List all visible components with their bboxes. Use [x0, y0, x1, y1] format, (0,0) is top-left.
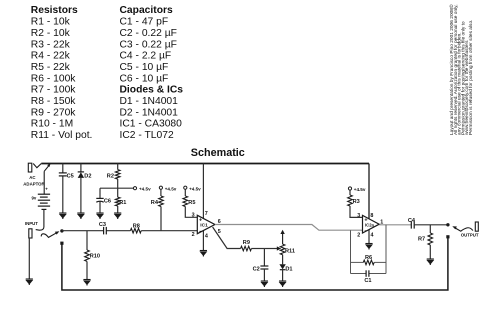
wire input jack sleeve to ground	[28, 238, 30, 279]
wire feedback right vertical	[385, 225, 387, 274]
svg-text:IC1: IC1	[200, 223, 208, 229]
capacitor C6	[96, 198, 103, 202]
svg-text:C3 - 0.22 µF: C3 - 0.22 µF	[120, 39, 177, 50]
terminal +4.5v node 1	[133, 187, 136, 190]
wire R6 branch	[351, 262, 387, 273]
ground IC2 pin 4	[365, 244, 372, 250]
ground C6	[96, 213, 103, 219]
svg-text:2: 2	[357, 232, 360, 238]
svg-text:R1: R1	[119, 200, 126, 206]
wire C2 to ground	[263, 269, 265, 281]
svg-text:C6 - 10 µF: C6 - 10 µF	[120, 73, 169, 84]
svg-text:R11 - Vol pot.: R11 - Vol pot.	[31, 130, 93, 141]
output jack J2	[475, 222, 478, 231]
wire junction to C2	[263, 249, 265, 267]
wire D1 to ground	[282, 270, 284, 281]
wire input signal line	[62, 230, 197, 232]
svg-text:R4 - 22k: R4 - 22k	[31, 51, 71, 62]
wire +9v top rail	[41, 163, 369, 165]
resistor R5	[183, 196, 188, 207]
battery B1 9v	[38, 194, 50, 209]
svg-text:−: −	[199, 229, 202, 235]
resistor R9	[241, 246, 252, 251]
resistor R3	[348, 195, 353, 206]
node input (junction dot)	[60, 229, 63, 232]
svg-text:C6: C6	[104, 199, 111, 205]
wire IC1 pin 4 to ground	[202, 231, 204, 251]
svg-text:Permission is refused for post: Permission is refused for posting from o…	[468, 20, 474, 135]
svg-text:C1: C1	[364, 278, 371, 284]
svg-text:+4.5v: +4.5v	[354, 187, 366, 192]
wire R5 top	[184, 189, 186, 196]
svg-text:R10: R10	[90, 254, 100, 260]
svg-text:C4 - 2.2 µF: C4 - 2.2 µF	[120, 51, 172, 62]
wire IC2 pin 8 from rail	[368, 164, 370, 219]
svg-text:4: 4	[205, 233, 208, 239]
op-amp IC1 CA3080	[192, 211, 221, 240]
ground R10	[83, 280, 90, 286]
wire IC1 pin5 to R9	[213, 227, 241, 249]
svg-text:C5: C5	[67, 173, 74, 179]
svg-text:AC: AC	[29, 175, 36, 180]
svg-text:7: 7	[205, 211, 208, 217]
ground R1	[114, 213, 121, 219]
resistor R8	[130, 228, 141, 233]
potentiometer R11	[280, 230, 295, 255]
terminal +4.5v node 3	[184, 186, 187, 189]
svg-text:R7 - 100k: R7 - 100k	[31, 85, 76, 96]
ground R7	[427, 259, 434, 265]
op-amp IC2 TL072	[357, 213, 383, 239]
svg-text:2: 2	[192, 232, 195, 238]
svg-text:R3 - 22k: R3 - 22k	[31, 39, 71, 50]
svg-text:R3: R3	[353, 199, 360, 205]
svg-text:R8: R8	[133, 223, 140, 229]
svg-text:R6 - 100k: R6 - 100k	[31, 73, 76, 84]
svg-text:IC2 - TL072: IC2 - TL072	[120, 130, 174, 141]
svg-text:+: +	[45, 187, 48, 192]
svg-text:IC2a: IC2a	[365, 222, 375, 227]
svg-text:C3: C3	[99, 222, 106, 228]
node +4.5v bias (R2/R1/C6)	[100, 188, 133, 213]
wire R3 top	[349, 190, 351, 195]
resistor R2	[115, 170, 120, 180]
ground input jack	[26, 279, 33, 285]
svg-text:R11: R11	[285, 249, 295, 255]
svg-text:3: 3	[357, 213, 360, 219]
diode D2	[78, 172, 84, 178]
wire battery negative to input jack ring	[36, 209, 44, 230]
svg-text:R2 - 10k: R2 - 10k	[31, 28, 71, 39]
resistor R6	[363, 260, 374, 265]
wire R3 to IC2 pin 3	[350, 206, 363, 217]
svg-text:−: −	[364, 229, 367, 235]
ground IC1 pin 4	[200, 251, 207, 257]
svg-text:Schematic: Schematic	[191, 147, 245, 159]
svg-text:R10 - 1M: R10 - 1M	[31, 119, 73, 130]
svg-text:IC1 - CA3080: IC1 - CA3080	[120, 119, 183, 130]
node output (junction dot)	[446, 223, 449, 226]
wire IC2 pin 4 to ground	[368, 230, 370, 244]
svg-text:R7: R7	[418, 237, 425, 243]
svg-text:C1 - 47 pF: C1 - 47 pF	[120, 17, 169, 28]
svg-text:R8 - 150k: R8 - 150k	[31, 96, 76, 107]
output jack tip contact arrow	[455, 228, 473, 231]
node bottom-right rail terminal (square dot)	[446, 235, 449, 238]
svg-text:C2: C2	[253, 266, 260, 272]
capacitor C3	[104, 227, 107, 235]
diode D1	[279, 255, 292, 273]
svg-text:R1 - 10k: R1 - 10k	[31, 17, 71, 28]
potentiometer R11 wiper arrow	[264, 248, 277, 250]
ground C2	[261, 281, 268, 287]
wire R5 to IC1 pin 3	[185, 207, 197, 218]
svg-text:ADAPTOR: ADAPTOR	[23, 182, 45, 187]
svg-text:R9: R9	[243, 240, 250, 246]
svg-text:D1 - 1N4001: D1 - 1N4001	[120, 96, 179, 107]
wire R7 to ground	[429, 245, 431, 259]
wire IC2 output to C4	[379, 224, 411, 226]
resistor R4	[159, 196, 164, 207]
svg-text:R9 - 270k: R9 - 270k	[31, 107, 76, 118]
svg-text:Capacitors: Capacitors	[120, 5, 173, 16]
svg-text:D1: D1	[285, 266, 292, 272]
capacitor C4	[411, 221, 414, 228]
svg-text:4: 4	[371, 232, 374, 238]
svg-text:R6: R6	[365, 255, 372, 261]
node bottom-left rail terminal (square dot)	[60, 242, 63, 245]
label AC ADAPTOR	[23, 175, 45, 187]
wire R4 bottom to signal line	[160, 207, 162, 231]
wire bottom ground return rail	[62, 237, 448, 290]
svg-text:R5 - 22k: R5 - 22k	[31, 62, 71, 73]
terminal +4.5v node 4	[348, 187, 351, 190]
capacitor C2	[260, 266, 268, 269]
svg-text:INPUT: INPUT	[25, 221, 38, 226]
resistor R7	[429, 225, 431, 233]
wire IC1 pin 7 from rail	[202, 164, 204, 220]
capacitor C1	[366, 270, 369, 277]
svg-text:C2 - 0.22 µF: C2 - 0.22 µF	[120, 28, 177, 39]
svg-text:8: 8	[370, 213, 373, 219]
wire C4 to output node	[414, 224, 448, 226]
ground C5	[59, 213, 66, 219]
wire power rail drops: C5 D2 R2	[63, 164, 118, 214]
svg-text:D2 - 1N4001: D2 - 1N4001	[120, 107, 179, 118]
ground D1	[279, 281, 286, 287]
capacitor C5	[59, 173, 67, 176]
svg-text:R5: R5	[188, 200, 195, 206]
svg-text:R4: R4	[151, 200, 159, 206]
svg-text:+4.5v: +4.5v	[139, 186, 151, 191]
input jack J1	[29, 229, 32, 238]
parts list: Capacitors / Diodes & ICs column	[120, 5, 184, 141]
parts list: Resistors column	[31, 5, 93, 141]
svg-text:+4.5v: +4.5v	[165, 186, 177, 191]
svg-text:Diodes & ICs: Diodes & ICs	[120, 85, 184, 96]
wire battery positive with switch arrow to rail	[44, 165, 49, 194]
wire R4 top	[160, 189, 162, 196]
svg-text:+4.5v: +4.5v	[189, 186, 201, 191]
svg-text:C4: C4	[408, 218, 416, 224]
wire feedback left vertical	[350, 230, 352, 273]
svg-text:3: 3	[192, 213, 195, 219]
wire R9 to pot wiper junction	[251, 248, 264, 250]
ground D2	[77, 213, 84, 219]
resistor R10	[86, 231, 88, 250]
svg-text:9v: 9v	[32, 196, 37, 201]
terminal +4.5v node 2	[159, 186, 162, 189]
svg-text:C5 - 10 µF: C5 - 10 µF	[120, 62, 169, 73]
AC adaptor jack J3	[28, 163, 41, 172]
input jack tip contact arrow	[41, 233, 57, 238]
svg-text:Resistors: Resistors	[31, 5, 78, 16]
resistor R1	[115, 197, 120, 206]
svg-text:D2: D2	[84, 173, 91, 179]
copyright vertical text	[448, 4, 474, 135]
svg-text:OUTPUT: OUTPUT	[461, 232, 479, 237]
wire IC1 pin6 output to IC2 pin2	[215, 225, 363, 231]
svg-text:R2: R2	[107, 173, 114, 179]
